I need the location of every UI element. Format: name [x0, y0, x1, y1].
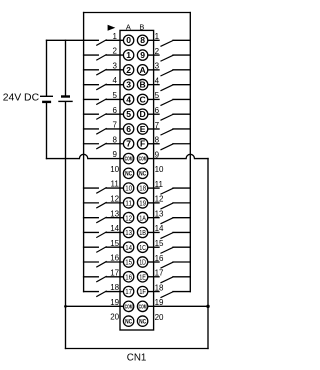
svg-text:9: 9	[155, 150, 160, 159]
svg-text:14: 14	[155, 224, 164, 233]
wire row 11 left stub	[84, 187, 99, 189]
wire row 3 right stub from pin	[148, 69, 159, 71]
wire left vertical rail	[83, 13, 85, 292]
svg-text:16: 16	[155, 254, 164, 263]
svg-text:15: 15	[155, 239, 164, 248]
wire row 6 left stub	[84, 113, 99, 115]
svg-text:COM: COM	[139, 305, 147, 311]
switch row 5 left contact blade	[97, 99, 106, 104]
switch row 4 left contact blade	[97, 84, 106, 89]
pin B18 (1F)	[137, 286, 147, 296]
wire row 1 left to pin	[106, 39, 123, 41]
wire row 17 left to pin	[106, 276, 123, 278]
pin A2 (1)	[123, 50, 133, 60]
wire row 15 left to pin	[106, 246, 123, 248]
pin A13 (12)	[123, 212, 133, 222]
switch row 5 right contact blade	[161, 100, 173, 106]
svg-text:F: F	[140, 139, 145, 149]
svg-text:6: 6	[155, 106, 160, 115]
switch row 15 right contact blade	[161, 247, 173, 253]
svg-text:18: 18	[155, 283, 164, 292]
wire row 18 left to pin	[106, 291, 123, 293]
pin B17 (1E)	[137, 272, 147, 282]
wire row 4 left stub	[84, 84, 99, 86]
switch row 11 right contact blade	[161, 188, 173, 194]
svg-text:11: 11	[125, 200, 132, 207]
svg-text:1: 1	[155, 32, 160, 41]
switch row 4 right contact blade	[161, 85, 173, 91]
svg-text:12: 12	[125, 215, 132, 222]
battery B2 long plate	[59, 100, 72, 102]
svg-text:NC: NC	[139, 319, 146, 326]
wire row 18 left stub	[84, 291, 99, 293]
svg-text:COM: COM	[125, 305, 133, 311]
pin B13 (1A)	[137, 212, 147, 222]
pin B6 (D)	[137, 109, 147, 119]
connector CN1 body box	[120, 30, 154, 330]
svg-text:7: 7	[155, 121, 160, 130]
pin A4 (3)	[123, 79, 133, 89]
svg-text:24V DC: 24V DC	[3, 93, 40, 104]
wire row 4 left to pin	[106, 84, 123, 86]
svg-text:16: 16	[125, 274, 132, 281]
pin B12 (19)	[137, 198, 147, 208]
svg-text:17: 17	[155, 269, 164, 278]
svg-text:0: 0	[126, 35, 131, 45]
svg-text:17: 17	[125, 289, 132, 296]
wire row 12 left to pin	[106, 202, 123, 204]
pin A5 (4)	[123, 94, 133, 104]
switch row 17 right contact blade	[161, 277, 173, 283]
wire row 7 right to rail	[173, 128, 190, 130]
svg-text:17: 17	[110, 268, 119, 277]
svg-text:3: 3	[112, 61, 117, 70]
switch row 17 left contact blade	[97, 276, 106, 281]
pin B3 (A)	[137, 65, 147, 75]
svg-text:8: 8	[112, 135, 117, 144]
pin A7 (6)	[123, 124, 133, 134]
pin A19 (COM)	[123, 301, 133, 311]
svg-text:12: 12	[155, 195, 164, 204]
pin B4 (B)	[137, 79, 147, 89]
svg-text:COM: COM	[139, 157, 147, 163]
svg-text:CN1: CN1	[127, 352, 147, 363]
svg-text:10: 10	[110, 165, 119, 174]
switch row 18 left contact blade	[97, 291, 106, 296]
wire COM row 9 right with crossover hump	[148, 154, 208, 158]
wire top frame bus	[84, 12, 191, 14]
wire row 4 right stub from pin	[148, 84, 159, 86]
svg-text:12: 12	[110, 194, 119, 203]
wire row 16 left to pin	[106, 261, 123, 263]
pin A3 (2)	[123, 65, 133, 75]
svg-text:1A: 1A	[139, 215, 146, 222]
wire row 16 right to rail	[173, 261, 190, 263]
wire row 6 right to rail	[173, 113, 190, 115]
battery B2 short plate	[62, 95, 69, 97]
switch row 8 right contact blade	[161, 144, 173, 150]
svg-text:5: 5	[155, 91, 160, 100]
wire COM row 19 left	[66, 305, 124, 307]
svg-text:8: 8	[140, 35, 145, 45]
wire row 1 left stub	[84, 39, 99, 41]
svg-text:8: 8	[155, 136, 160, 145]
svg-text:11: 11	[111, 180, 120, 189]
wire row 3 right to rail	[173, 69, 190, 71]
wire row 7 right stub from pin	[148, 128, 159, 130]
pin B7 (E)	[137, 124, 147, 134]
svg-text:11: 11	[155, 180, 164, 189]
wire row 15 right to rail	[173, 246, 190, 248]
svg-text:3: 3	[126, 80, 131, 90]
svg-text:NC: NC	[125, 319, 132, 326]
switch row 14 right contact blade	[161, 233, 173, 239]
svg-text:1C: 1C	[139, 245, 146, 252]
wire row 3 left stub	[84, 69, 99, 71]
switch row 18 right contact blade	[161, 292, 173, 298]
svg-text:13: 13	[125, 230, 132, 237]
svg-text:A: A	[126, 22, 131, 31]
battery B1 short plate	[43, 101, 50, 103]
switch row 6 right contact blade	[161, 114, 173, 120]
svg-text:NC: NC	[125, 171, 132, 178]
wire row 1 right stub from pin	[148, 39, 159, 41]
svg-text:15: 15	[125, 260, 132, 267]
wire row 13 left stub	[84, 217, 99, 219]
pin B20 (NC)	[137, 316, 147, 326]
wire right vertical rail	[189, 13, 191, 292]
svg-text:10: 10	[155, 165, 164, 174]
svg-text:1F: 1F	[139, 289, 146, 296]
pin A12 (11)	[123, 198, 133, 208]
wire row 11 right stub from pin	[148, 187, 159, 189]
wire row 17 right to rail	[173, 276, 190, 278]
wire row 7 left stub	[84, 128, 99, 130]
wire row 8 left to pin	[106, 143, 123, 145]
wire row 7 left to pin	[106, 128, 123, 130]
svg-text:COM: COM	[125, 157, 133, 163]
svg-text:D: D	[139, 109, 145, 119]
wire row 2 left to pin	[106, 54, 123, 56]
svg-text:4: 4	[112, 76, 117, 85]
wire bottom frame	[66, 348, 209, 350]
battery B2 positive lead / COM rail left	[65, 102, 67, 348]
wire row 13 left to pin	[106, 217, 123, 219]
wire row 17 left stub	[84, 276, 99, 278]
pin A6 (5)	[123, 109, 133, 119]
wire row 16 left stub	[84, 261, 99, 263]
wire row 8 left stub	[84, 143, 99, 145]
wire row 12 right to rail	[173, 202, 190, 204]
wire row 15 right stub from pin	[148, 246, 159, 248]
svg-text:1: 1	[126, 50, 131, 60]
wire row 13 right stub from pin	[148, 217, 159, 219]
svg-text:10: 10	[125, 186, 132, 193]
switch row 7 right contact blade	[161, 129, 173, 135]
wire row 1 right to rail	[173, 39, 190, 41]
switch row 1 right contact blade	[161, 41, 173, 47]
svg-text:5: 5	[126, 109, 131, 119]
pin B1 (8)	[137, 35, 147, 45]
switch row 3 left contact blade	[97, 69, 106, 74]
svg-text:20: 20	[155, 313, 164, 322]
wire supply feed to rails	[47, 39, 84, 41]
wire row 11 right to rail	[173, 187, 190, 189]
pin A16 (15)	[123, 257, 133, 267]
switch row 12 left contact blade	[97, 202, 106, 207]
pin A8 (7)	[123, 139, 133, 149]
switch row 2 right contact blade	[161, 55, 173, 61]
switch row 13 right contact blade	[161, 218, 173, 224]
pin A15 (14)	[123, 242, 133, 252]
junction dot row19 x B2 rail	[64, 305, 67, 308]
wire COM jumper rail right	[207, 159, 209, 349]
switch row 16 left contact blade	[97, 262, 106, 267]
battery B1 negative lead	[46, 103, 48, 158]
battery B2 negative lead	[65, 40, 67, 95]
switch row 12 right contact blade	[161, 203, 173, 209]
wire row 11 left to pin	[106, 187, 123, 189]
svg-text:15: 15	[110, 239, 119, 248]
junction dot row19 x jumper rail	[206, 305, 209, 308]
pin B16 (1D)	[137, 257, 147, 267]
wire row 14 right stub from pin	[148, 231, 159, 233]
svg-text:E: E	[140, 124, 146, 134]
svg-text:16: 16	[110, 254, 119, 263]
wire row 8 right stub from pin	[148, 143, 159, 145]
wire row 2 right stub from pin	[148, 54, 159, 56]
pin B11 (18)	[137, 183, 147, 193]
pin B10 (NC)	[137, 168, 147, 178]
pin B8 (F)	[137, 139, 147, 149]
svg-text:2: 2	[126, 65, 131, 75]
svg-text:B: B	[139, 22, 144, 31]
switch row 7 left contact blade	[97, 129, 106, 134]
svg-text:9: 9	[140, 50, 145, 60]
polarity arrow marker	[108, 25, 116, 31]
switch row 16 right contact blade	[161, 262, 173, 268]
pin A18 (17)	[123, 286, 133, 296]
svg-text:19: 19	[155, 298, 164, 307]
svg-text:NC: NC	[139, 171, 146, 178]
svg-text:2: 2	[155, 47, 160, 56]
pin B5 (C)	[137, 94, 147, 104]
svg-text:B: B	[139, 80, 145, 90]
wire row 2 left stub	[84, 54, 99, 56]
svg-text:1D: 1D	[139, 260, 146, 267]
wire row 3 left to pin	[106, 69, 123, 71]
wire row 14 left to pin	[106, 231, 123, 233]
pin A14 (13)	[123, 227, 133, 237]
svg-text:14: 14	[110, 224, 119, 233]
svg-text:18: 18	[110, 283, 119, 292]
wire row 5 left stub	[84, 98, 99, 100]
svg-text:3: 3	[155, 62, 160, 71]
wire row 5 right to rail	[173, 98, 190, 100]
wire COM row 9 left with crossover hump	[47, 154, 124, 158]
pin B15 (1C)	[137, 242, 147, 252]
pin B14 (1B)	[137, 227, 147, 237]
svg-text:5: 5	[112, 91, 117, 100]
svg-text:2: 2	[112, 47, 117, 56]
wire row 5 left to pin	[106, 98, 123, 100]
battery B1 long plate	[41, 95, 53, 97]
wire row 18 right to rail	[173, 291, 190, 293]
wire row 14 right to rail	[173, 231, 190, 233]
wire row 2 right to rail	[173, 54, 190, 56]
wire row 12 right stub from pin	[148, 202, 159, 204]
switch row 1 left contact blade	[97, 40, 106, 45]
pin A10 (NC)	[123, 168, 133, 178]
switch row 11 left contact blade	[97, 188, 106, 193]
switch row 13 left contact blade	[97, 217, 106, 222]
svg-text:1B: 1B	[139, 230, 146, 237]
pin A9 (COM)	[123, 153, 133, 163]
svg-text:19: 19	[139, 200, 146, 207]
svg-text:18: 18	[139, 186, 146, 193]
svg-text:4: 4	[155, 76, 160, 85]
wire row 6 left to pin	[106, 113, 123, 115]
switch row 15 left contact blade	[97, 247, 106, 252]
svg-text:9: 9	[112, 150, 117, 159]
wire row 13 right to rail	[173, 217, 190, 219]
wire row 14 left stub	[84, 231, 99, 233]
svg-text:A: A	[139, 65, 145, 75]
svg-text:4: 4	[126, 94, 131, 104]
wire row 17 right stub from pin	[148, 276, 159, 278]
wire row 4 right to rail	[173, 84, 190, 86]
svg-text:6: 6	[112, 106, 117, 115]
svg-text:14: 14	[125, 245, 132, 252]
svg-text:1E: 1E	[139, 274, 146, 281]
pin A20 (NC)	[123, 316, 133, 326]
wire row 15 left stub	[84, 246, 99, 248]
switch row 8 left contact blade	[97, 143, 106, 148]
pin A17 (16)	[123, 272, 133, 282]
svg-text:13: 13	[110, 209, 119, 218]
switch row 6 left contact blade	[97, 114, 106, 119]
svg-text:6: 6	[126, 124, 131, 134]
pin B2 (9)	[137, 50, 147, 60]
wire row 5 right stub from pin	[148, 98, 159, 100]
svg-text:7: 7	[112, 121, 117, 130]
svg-text:7: 7	[126, 139, 131, 149]
switch row 3 right contact blade	[161, 70, 173, 76]
pin B19 (COM)	[137, 301, 147, 311]
svg-text:C: C	[139, 94, 145, 104]
wire row 6 right stub from pin	[148, 113, 159, 115]
pin B9 (COM)	[137, 153, 147, 163]
battery B1 positive lead	[46, 40, 48, 96]
pin A11 (10)	[123, 183, 133, 193]
wire row 18 right stub from pin	[148, 291, 159, 293]
wire row 12 left stub	[84, 202, 99, 204]
svg-text:1: 1	[112, 32, 117, 41]
wire row 16 right stub from pin	[148, 261, 159, 263]
svg-text:20: 20	[110, 313, 119, 322]
svg-text:13: 13	[155, 209, 164, 218]
switch row 2 left contact blade	[97, 55, 106, 60]
switch row 14 left contact blade	[97, 232, 106, 237]
wire COM row 19 right	[148, 305, 208, 307]
svg-text:19: 19	[110, 298, 119, 307]
wire row 8 right to rail	[173, 143, 190, 145]
pin A1 (0)	[123, 35, 133, 45]
